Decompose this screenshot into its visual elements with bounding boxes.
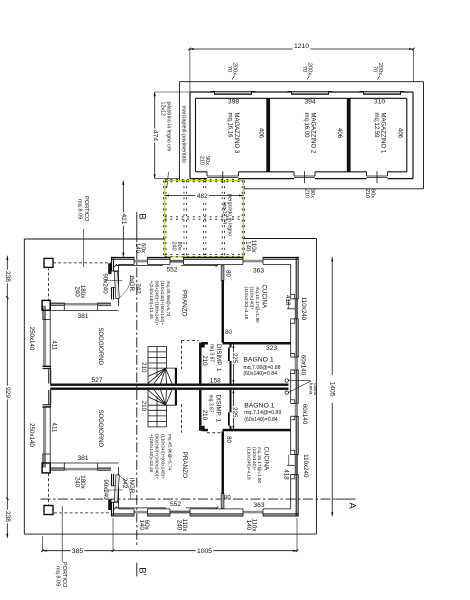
door leaf 90x240 ingresso bottom xyxy=(114,475,119,502)
svg-text:140: 140 xyxy=(134,243,141,254)
svg-text:PRANZO: PRANZO xyxy=(181,290,188,317)
stairs bottom dark wall xyxy=(175,390,177,405)
svg-text:140: 140 xyxy=(245,520,252,531)
svg-text:411: 411 xyxy=(51,423,58,433)
svg-text:70: 70 xyxy=(301,66,307,72)
svg-text:1005: 1005 xyxy=(197,548,212,555)
svg-text:DISIMP. 1: DISIMP. 1 xyxy=(214,395,221,423)
bay west wall top unit xyxy=(42,306,44,320)
svg-text:(110x140)+: (110x140)+ xyxy=(252,447,257,471)
svg-text:363: 363 xyxy=(253,267,264,274)
svg-text:385: 385 xyxy=(72,548,84,555)
svg-text:CUCINA: CUCINA xyxy=(261,285,268,310)
svg-text:381: 381 xyxy=(77,455,88,462)
svg-text:210: 210 xyxy=(201,355,208,366)
svg-text:+(240x140)=13.46: +(240x140)=13.46 xyxy=(149,281,154,320)
cucina-pranzo door leaf 80 bottom xyxy=(221,494,224,509)
svg-text:406: 406 xyxy=(258,128,264,139)
svg-text:B’: B’ xyxy=(137,567,148,575)
svg-text:250x140: 250x140 xyxy=(28,423,35,447)
bay west wall bottom unit xyxy=(42,454,44,468)
svg-text:80: 80 xyxy=(225,270,231,277)
pavement boundary around house xyxy=(24,238,165,240)
svg-text:210: 210 xyxy=(201,410,208,421)
bay return to party wall bottom xyxy=(43,404,52,406)
svg-text:mq.12.59: mq.12.59 xyxy=(373,113,379,139)
svg-text:238: 238 xyxy=(4,511,11,522)
west ingresso wall bottom xyxy=(111,474,113,486)
svg-text:411: 411 xyxy=(51,340,58,350)
svg-text:mq.8.09: mq.8.09 xyxy=(54,566,60,586)
svg-text:(110x140)+: (110x140)+ xyxy=(250,287,255,311)
svg-text:12x12: 12x12 xyxy=(160,102,166,116)
svg-text:323: 323 xyxy=(266,345,277,352)
disimp west wall top xyxy=(199,348,202,384)
cucina south wall top unit xyxy=(202,342,208,345)
svg-text:238: 238 xyxy=(4,271,11,282)
bagno door leaf bottom xyxy=(228,412,230,426)
svg-text:80: 80 xyxy=(225,330,232,336)
left dimension chain 238 929 238 xyxy=(6,256,8,538)
svg-text:B: B xyxy=(137,213,148,219)
svg-text:398: 398 xyxy=(228,99,240,106)
svg-text:60x140: 60x140 xyxy=(301,404,308,425)
svg-text:fumar.: fumar. xyxy=(309,383,314,395)
svg-text:1210: 1210 xyxy=(294,43,309,50)
dimension 1405 right xyxy=(331,257,333,375)
dimension 1210 top xyxy=(190,48,414,50)
svg-text:PORTICO: PORTICO xyxy=(83,196,89,222)
svg-text:474: 474 xyxy=(152,130,159,142)
svg-text:marciapiedi pavimentato: marciapiedi pavimentato xyxy=(180,106,186,163)
bottom dimension 385 and 1005 xyxy=(43,550,298,552)
svg-text:PRANZO: PRANZO xyxy=(181,452,188,479)
svg-text:mq.8.09: mq.8.09 xyxy=(76,199,82,219)
svg-text:70: 70 xyxy=(226,66,232,72)
svg-text:210: 210 xyxy=(303,189,309,198)
svg-text:(110x240)+(60x140)+: (110x240)+(60x140)+ xyxy=(160,281,165,326)
svg-text:mq.15.17@=1.90: mq.15.17@=1.90 xyxy=(257,447,262,484)
bagno door leaf top xyxy=(228,348,230,362)
north wall inner line xyxy=(119,263,134,265)
svg-text:(110x240)=4.18: (110x240)=4.18 xyxy=(244,287,249,320)
pavement outline around magazzino xyxy=(179,81,423,83)
svg-text:210: 210 xyxy=(140,401,147,412)
svg-text:mq.16.00: mq.16.00 xyxy=(303,113,309,139)
svg-text:mq.3.67: mq.3.67 xyxy=(208,344,214,362)
svg-text:110x240: 110x240 xyxy=(300,297,307,321)
svg-text:(60x140)=0.84: (60x140)=0.84 xyxy=(243,371,277,377)
bay window 180x240 bottom xyxy=(64,468,97,471)
east wall window 60x140 top xyxy=(295,357,298,370)
svg-text:242: 242 xyxy=(135,283,142,294)
portico dashed edges top xyxy=(53,262,111,264)
east wall window 110x240 top xyxy=(295,299,298,319)
svg-text:394: 394 xyxy=(304,99,316,106)
north wall window 110x140 xyxy=(243,260,263,263)
pilaster at ingresso corner bottom xyxy=(108,499,111,510)
east wall inner line xyxy=(290,264,292,294)
svg-text:225: 225 xyxy=(231,407,238,418)
svg-text:310: 310 xyxy=(374,99,386,106)
svg-text:90x240: 90x240 xyxy=(101,273,108,294)
bay window 180x240 top xyxy=(64,303,97,306)
cucina west wall top xyxy=(222,280,225,342)
svg-text:140: 140 xyxy=(244,241,251,252)
svg-text:A: A xyxy=(347,502,358,509)
south wall window 110x140 xyxy=(243,511,263,514)
svg-text:MAGAZZINO 1: MAGAZZINO 1 xyxy=(380,113,386,154)
svg-text:60x140: 60x140 xyxy=(300,355,307,376)
north wall window 60x140 xyxy=(134,260,148,263)
portico dashed edges bottom xyxy=(54,512,111,514)
bagno west wall top xyxy=(230,345,232,348)
svg-text:BAGNO 1: BAGNO 1 xyxy=(243,357,273,364)
dim 552 bottom xyxy=(116,507,166,509)
portico column top xyxy=(44,258,53,267)
projection dashed lines bottom xyxy=(180,404,182,433)
dimension 421 xyxy=(122,181,124,257)
party wall double xyxy=(50,384,288,386)
svg-text:240: 240 xyxy=(73,477,80,488)
svg-text:DISIMP. 1: DISIMP. 1 xyxy=(215,344,222,372)
chimney flues xyxy=(285,379,288,382)
dim 225 top xyxy=(232,345,234,353)
cucina north wall bottom unit xyxy=(202,429,208,432)
svg-text:MAGAZZINO 2: MAGAZZINO 2 xyxy=(310,113,316,154)
svg-text:(90x240)+(180x240)+: (90x240)+(180x240)+ xyxy=(155,281,160,326)
magazzino exterior walls double line xyxy=(190,91,215,93)
section line B-B xyxy=(136,212,138,233)
south wall window 60x140 xyxy=(134,511,148,514)
svg-text:552: 552 xyxy=(170,501,181,508)
svg-text:PORTICO: PORTICO xyxy=(61,562,67,588)
svg-text:mq.17.74: mq.17.74 xyxy=(221,202,227,224)
svg-text:70: 70 xyxy=(371,66,377,72)
bay south wall bottom unit xyxy=(43,467,64,469)
magazzino windows 200x70 xyxy=(211,90,256,92)
bay SW pilaster bottom xyxy=(42,463,50,473)
svg-text:406: 406 xyxy=(336,128,342,139)
cucina west wall bottom xyxy=(222,431,225,493)
projection dashed lines top xyxy=(180,341,182,370)
svg-text:110x240: 110x240 xyxy=(302,454,309,478)
svg-text:482: 482 xyxy=(197,193,208,200)
svg-text:381: 381 xyxy=(77,313,88,320)
house east wall xyxy=(295,257,297,299)
magazzino doors 90x210 recessed xyxy=(206,172,208,176)
dimension 474 left of magazzino xyxy=(154,92,156,179)
svg-text:SOGGIORNO: SOGGIORNO xyxy=(97,410,103,448)
svg-text:80: 80 xyxy=(225,436,231,443)
svg-text:250x140: 250x140 xyxy=(28,327,35,351)
svg-text:363: 363 xyxy=(253,502,264,509)
svg-text:242: 242 xyxy=(121,478,128,489)
svg-text:225: 225 xyxy=(231,353,238,364)
svg-text:418: 418 xyxy=(282,469,289,480)
svg-text:mq.45.96@=5.74: mq.45.96@=5.74 xyxy=(166,281,171,318)
svg-text:(90x240)+(180x240)+: (90x240)+(180x240)+ xyxy=(155,434,160,479)
house north wall xyxy=(111,256,134,258)
door leaf 90x240 ingresso top xyxy=(114,272,119,299)
svg-text:1405: 1405 xyxy=(329,381,336,396)
svg-text:418: 418 xyxy=(284,295,291,306)
svg-text:mq.16.16: mq.16.16 xyxy=(226,113,232,139)
svg-text:mq.15.17@=1.90: mq.15.17@=1.90 xyxy=(255,287,260,324)
svg-text:SOGGIORNO: SOGGIORNO xyxy=(97,328,103,366)
svg-text:421: 421 xyxy=(120,213,127,224)
east wall window 60x140 bottom xyxy=(295,403,298,416)
svg-text:527: 527 xyxy=(91,377,102,384)
bay window 250x140 bottom xyxy=(43,407,46,454)
pergola beams dashed xyxy=(163,181,165,257)
dimension 482 pergola xyxy=(165,195,244,197)
svg-text:INGR.: INGR. xyxy=(128,276,135,293)
east wall window 110x240 bottom xyxy=(295,455,298,475)
svg-text:210: 210 xyxy=(364,189,370,198)
svg-text:406: 406 xyxy=(397,128,403,139)
bay NW pilaster top xyxy=(42,300,50,310)
stairs top dark wall xyxy=(175,368,177,383)
stairs bottom unit xyxy=(148,390,177,427)
bagno west wall bottom xyxy=(230,426,232,430)
svg-text:MAGAZZINO 3: MAGAZZINO 3 xyxy=(233,113,239,154)
svg-text:80: 80 xyxy=(224,495,231,501)
svg-text:BAGNO 1: BAGNO 1 xyxy=(244,402,274,409)
magazzino room divider walls xyxy=(266,98,270,172)
pilaster at ingresso corner top xyxy=(108,263,111,274)
disimp west wall bottom xyxy=(199,390,202,426)
svg-text:(110x240)=4.18: (110x240)=4.18 xyxy=(247,447,252,480)
svg-text:mq.45.96@=5.74: mq.45.96@=5.74 xyxy=(167,434,172,471)
svg-text:240: 240 xyxy=(73,286,80,297)
bay window 250x140 top xyxy=(43,319,46,366)
svg-text:552: 552 xyxy=(166,267,177,274)
stairs top unit xyxy=(148,346,177,383)
svg-text:240: 240 xyxy=(175,520,182,531)
dim 552 top xyxy=(116,265,163,267)
cucina-pranzo door leaf 80 top xyxy=(221,265,224,280)
svg-text:mq.7.14@=0.89: mq.7.14@=0.89 xyxy=(244,410,281,416)
portico column bottom xyxy=(44,506,53,515)
svg-text:(110x240)+(60x140)+: (110x240)+(60x140)+ xyxy=(161,434,166,479)
svg-text:(60x140)=0.84: (60x140)=0.84 xyxy=(244,417,278,423)
south wall inner line xyxy=(119,508,134,510)
svg-text:210: 210 xyxy=(140,362,147,373)
svg-text:158: 158 xyxy=(210,378,221,385)
bay return to party wall top xyxy=(43,366,52,368)
svg-text:INGR.: INGR. xyxy=(128,478,135,495)
north wall door 80x240 to pergola xyxy=(170,260,184,263)
section line A-A xyxy=(41,498,337,500)
svg-text:240: 240 xyxy=(170,241,176,250)
svg-text:CUCINA: CUCINA xyxy=(262,447,269,472)
svg-text:+(240x140)=13.46: +(240x140)=13.46 xyxy=(149,434,154,473)
pergola dashed yellow frame xyxy=(165,181,244,257)
west ingresso wall top xyxy=(111,257,113,271)
south wall window 110x240 xyxy=(170,511,190,514)
dim 225 bottom xyxy=(232,390,234,406)
bay north wall top unit xyxy=(43,302,64,304)
house south wall xyxy=(111,513,134,515)
svg-text:140: 140 xyxy=(138,520,145,531)
svg-text:210: 210 xyxy=(198,156,204,165)
svg-text:929: 929 xyxy=(4,387,11,398)
